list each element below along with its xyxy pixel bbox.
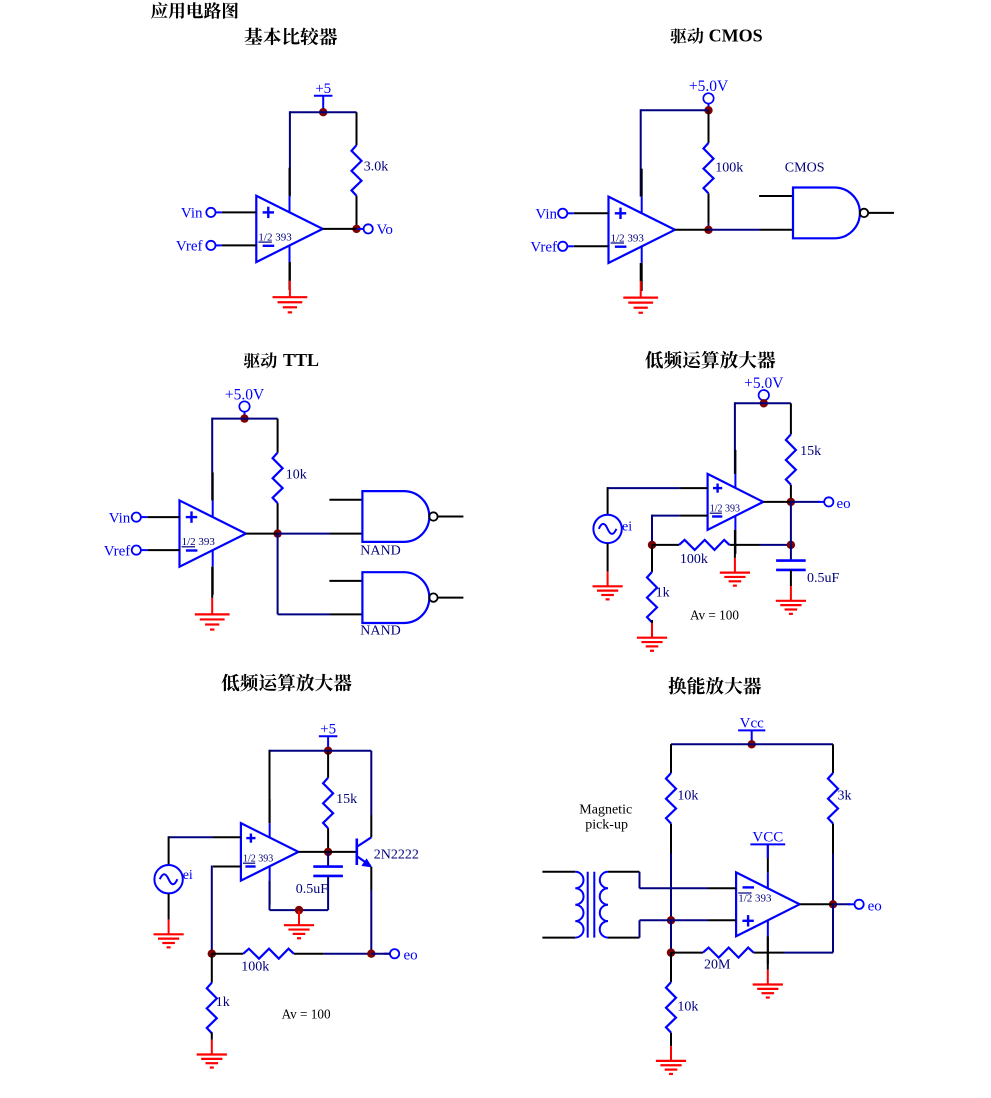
wire C6 sec top drop bbox=[639, 872, 641, 889]
wire C5 top rail bbox=[270, 750, 372, 752]
svg-text:+5: +5 bbox=[315, 81, 331, 97]
title 驱动 (TTL) bbox=[244, 352, 277, 368]
svg-text:20M: 20M bbox=[704, 957, 731, 972]
junction C4 fb node bbox=[648, 541, 656, 549]
ground C5 source GND bbox=[154, 894, 184, 948]
junction C5 fb node bbox=[208, 950, 216, 958]
resistor 3.0k bbox=[352, 112, 389, 229]
svg-text:Vin: Vin bbox=[181, 206, 203, 222]
svg-text:100k: 100k bbox=[680, 552, 708, 567]
svg-text:Vo: Vo bbox=[377, 222, 393, 238]
power port +5 (C5) bbox=[319, 721, 338, 750]
pin C4 + input pin bbox=[680, 487, 708, 489]
junction C5 out node bbox=[367, 950, 375, 958]
ground C4 1k GND bbox=[637, 620, 667, 651]
junction C1 power bbox=[319, 108, 327, 116]
ground C6 op-amp GND bbox=[753, 936, 783, 997]
NAND gate CMOS gate bbox=[793, 188, 894, 239]
svg-text:eo: eo bbox=[404, 948, 418, 964]
junction C1 output node bbox=[352, 225, 360, 233]
svg-text:3k: 3k bbox=[838, 789, 852, 804]
wire C3 left vertical bbox=[211, 418, 213, 501]
resistor 10k bbox=[666, 744, 698, 886]
pin C3 Vref wire bbox=[147, 549, 179, 551]
wire C1 top rail bbox=[290, 111, 357, 113]
wire C2 output to gate bbox=[709, 229, 761, 231]
svg-text:10k: 10k bbox=[286, 467, 307, 482]
pin C5 source riser bbox=[168, 836, 170, 865]
wire C5 collector up bbox=[370, 751, 372, 815]
power port +5.0V (C2) bbox=[689, 78, 729, 110]
junction C6 fb node bbox=[667, 948, 675, 956]
svg-text:Av = 100: Av = 100 bbox=[690, 607, 739, 622]
resistor 20M bbox=[671, 948, 833, 973]
pin C6 output pin bbox=[800, 903, 833, 905]
svg-text:eo: eo bbox=[868, 898, 882, 914]
wire C6 left rail down bbox=[670, 744, 672, 747]
wire C5 base pin bbox=[328, 851, 356, 853]
ground C5 1k GND bbox=[197, 1033, 227, 1068]
svg-text:100k: 100k bbox=[715, 161, 743, 176]
op-amp U3 1/2 393 (C3) bbox=[180, 472, 246, 594]
pin C2 NAND floating input bbox=[759, 195, 793, 197]
wire C5 - input wire bbox=[213, 866, 241, 868]
pin C5 output pin bbox=[298, 851, 328, 853]
pin C3 Vin wire bbox=[147, 516, 179, 518]
transistor Q1 2N2222 bbox=[357, 815, 419, 890]
ground C1 GND bbox=[273, 262, 308, 312]
svg-text:1k: 1k bbox=[656, 585, 670, 600]
svg-text:+5.0V: +5.0V bbox=[744, 375, 784, 392]
wire C5 left vertical bbox=[269, 750, 271, 823]
pin C2 Vin wire bbox=[574, 212, 609, 214]
svg-text:Vcc: Vcc bbox=[740, 716, 764, 732]
svg-text:NAND: NAND bbox=[360, 624, 400, 639]
title 低频运算放大器 (C4) bbox=[645, 351, 775, 369]
op-amp U4 1/2 393 (C4) bbox=[708, 450, 764, 554]
svg-text:0.5uF: 0.5uF bbox=[807, 571, 840, 586]
pin C4 output pin bbox=[763, 501, 791, 503]
terminal eo bbox=[818, 496, 851, 512]
pin C1 Vref wire bbox=[222, 244, 256, 246]
pin C2 NAND input pin bbox=[760, 229, 793, 231]
capacitor 0.5uF bbox=[296, 867, 343, 897]
wire C6 top rail bbox=[671, 743, 833, 745]
terminal eo bbox=[848, 898, 882, 914]
power port +5.0V (C4) bbox=[744, 375, 784, 403]
ground C4 cap GND bbox=[776, 570, 806, 614]
junction C4 output node bbox=[787, 498, 795, 506]
terminal Vref bbox=[530, 240, 573, 256]
junction C5 bottom gnd node bbox=[295, 906, 303, 914]
wire C4 - input wire bbox=[652, 515, 680, 517]
power port +5 bbox=[314, 81, 333, 112]
power port Vcc bbox=[738, 716, 765, 745]
svg-text:10k: 10k bbox=[677, 789, 698, 804]
wire C5 cap stub bbox=[327, 852, 329, 867]
terminal Vref bbox=[176, 239, 222, 255]
junction C6 + input node bbox=[667, 916, 675, 924]
svg-text:ei: ei bbox=[183, 868, 193, 883]
junction C3 output node bbox=[273, 529, 281, 537]
transformer T1 magnetic pick-up bbox=[542, 872, 639, 938]
svg-text:3.0k: 3.0k bbox=[364, 159, 389, 174]
junction C2 output node bbox=[704, 226, 712, 234]
junction C6 power node bbox=[748, 740, 756, 748]
svg-text:1k: 1k bbox=[216, 995, 230, 1010]
ground C4 op-amp GND bbox=[720, 530, 750, 586]
ground C2 GND bbox=[623, 263, 658, 313]
wire C5 - riser bbox=[211, 866, 213, 954]
wire C5 out to eo bbox=[371, 953, 390, 955]
junction C4 out-fb node bbox=[787, 541, 795, 549]
svg-text:+5: +5 bbox=[320, 721, 336, 737]
wire C3 branch down bbox=[277, 534, 279, 615]
resistor 15k bbox=[786, 403, 821, 502]
op-amp U2 1/2 393 (C2) bbox=[609, 169, 675, 291]
resistor 1k bbox=[207, 954, 230, 1033]
terminal Vin bbox=[181, 206, 222, 222]
pin C3 NAND2 floating input bbox=[329, 580, 362, 582]
wire C4 left vertical bbox=[734, 402, 736, 474]
pin C2 output pin bbox=[675, 229, 709, 231]
resistor 10k bbox=[666, 953, 698, 1046]
svg-text:+5.0V: +5.0V bbox=[689, 78, 729, 95]
ground C4 source GND bbox=[593, 543, 623, 599]
wire C1 left vertical bbox=[289, 111, 291, 196]
wire C6 out to eo bbox=[833, 903, 850, 905]
svg-text:Vref: Vref bbox=[176, 239, 203, 255]
NAND gate NAND bbox=[360, 491, 463, 558]
svg-text:2N2222: 2N2222 bbox=[374, 848, 419, 863]
svg-text:Magnetic: Magnetic bbox=[579, 802, 632, 817]
wire C4 fb vertical bbox=[790, 502, 792, 545]
junction C2 power node bbox=[704, 106, 712, 114]
svg-text:Vref: Vref bbox=[104, 543, 131, 559]
pin C1 output bbox=[323, 228, 357, 230]
junction C5 power node bbox=[324, 747, 332, 755]
title 换能放大器 bbox=[668, 677, 761, 695]
capacitor 0.5uF bbox=[776, 561, 839, 586]
resistor 3k bbox=[828, 744, 852, 904]
wire C5 emitter down bbox=[370, 890, 372, 954]
resistor 1k bbox=[647, 545, 670, 633]
svg-text:eo: eo bbox=[837, 496, 851, 512]
op-amp U1 1/2 393 (C1) bbox=[256, 168, 322, 290]
wire C6 fb vertical bbox=[832, 904, 834, 952]
wire C5 V- down bbox=[269, 881, 271, 910]
svg-text:Vin: Vin bbox=[535, 207, 557, 223]
wire C6 sec bottom rise bbox=[639, 920, 641, 937]
op-amp U5 1/2 393 (C5) bbox=[241, 799, 299, 905]
resistor 15k bbox=[323, 751, 357, 852]
svg-text:0.5uF: 0.5uF bbox=[296, 882, 329, 897]
wire C6 + input wire bbox=[640, 919, 709, 921]
pin C5 + input pin bbox=[213, 836, 241, 838]
wire C4 top rail bbox=[735, 402, 791, 404]
wire C5 cap to bottom bbox=[327, 876, 329, 910]
wire C3 output to NAND1 bbox=[278, 533, 330, 535]
ground C3 GND bbox=[195, 567, 230, 630]
pin C3 NAND1 input pin bbox=[330, 533, 362, 535]
pin C2 Vref wire bbox=[574, 245, 609, 247]
svg-text:Av = 100: Av = 100 bbox=[282, 1006, 331, 1021]
resistor 10k bbox=[273, 419, 307, 533]
resistor 100k bbox=[704, 110, 744, 230]
terminal Vin bbox=[109, 510, 148, 526]
pin C4 - input pin bbox=[680, 515, 708, 517]
svg-text:NAND: NAND bbox=[360, 544, 400, 559]
wire C4 - riser bbox=[651, 515, 653, 545]
junction C5 output node bbox=[324, 848, 332, 856]
svg-text:+5.0V: +5.0V bbox=[225, 386, 265, 403]
pin C3 output pin bbox=[246, 533, 278, 535]
svg-text:Vref: Vref bbox=[530, 240, 557, 256]
sine source ei bbox=[154, 865, 193, 893]
power port VCC bbox=[750, 830, 785, 858]
wire C6 left mid bbox=[670, 887, 672, 921]
title 驱动 (CMOS) bbox=[670, 28, 703, 44]
junction C4 power node bbox=[760, 399, 768, 407]
svg-text:VCC: VCC bbox=[752, 830, 783, 846]
op-amp U6 1/2 393 (C6) bbox=[736, 844, 800, 964]
terminal eo bbox=[384, 948, 418, 964]
wire C4 + input wire bbox=[608, 487, 680, 489]
wire C5 bottom wire bbox=[270, 909, 329, 911]
wire C4 cap stub bbox=[790, 545, 792, 561]
wire C2 left vertical bbox=[640, 109, 642, 196]
wire C5 + input wire bbox=[169, 836, 213, 838]
svg-text:ei: ei bbox=[622, 520, 632, 535]
resistor 100k bbox=[652, 540, 791, 567]
wire C2 top rail bbox=[641, 109, 709, 111]
wire C6 - input wire bbox=[640, 887, 709, 889]
wire C4 out to eo bbox=[791, 501, 820, 503]
svg-text:TTL: TTL bbox=[283, 350, 319, 370]
svg-text:15k: 15k bbox=[800, 444, 821, 459]
svg-text:CMOS: CMOS bbox=[709, 26, 763, 46]
pin C1 Vin wire bbox=[222, 211, 256, 213]
svg-text:CMOS: CMOS bbox=[785, 161, 825, 176]
svg-text:1/2 393: 1/2 393 bbox=[738, 893, 772, 905]
svg-text:Vin: Vin bbox=[109, 510, 131, 526]
page title 应用电路图 bbox=[151, 2, 238, 19]
title 低频运算放大器 (C5) bbox=[221, 674, 351, 692]
resistor 100k bbox=[212, 949, 371, 975]
terminal Vref bbox=[104, 543, 148, 559]
sine source ei bbox=[593, 515, 632, 543]
svg-text:100k: 100k bbox=[241, 960, 269, 975]
ground C5 mid GND bbox=[284, 910, 314, 938]
title 基本比较器 bbox=[245, 28, 338, 46]
junction C6 output node bbox=[829, 900, 837, 908]
pin C6 + input pin bbox=[708, 919, 736, 921]
junction C3 power node bbox=[240, 414, 248, 422]
wire C3 top rail bbox=[212, 418, 277, 420]
pin C3 NAND2 input pin bbox=[330, 613, 362, 615]
pin C6 - input pin bbox=[708, 887, 736, 889]
svg-text:15k: 15k bbox=[336, 792, 357, 807]
pin C5 - input pin bbox=[213, 866, 241, 868]
svg-text:10k: 10k bbox=[677, 999, 698, 1014]
svg-text:pick-up: pick-up bbox=[585, 817, 628, 832]
ground C6 bottom GND bbox=[656, 1046, 686, 1074]
NAND gate NAND bbox=[360, 572, 463, 638]
pin C3 NAND1 floating input bbox=[329, 499, 362, 501]
power port +5.0V (C3) bbox=[225, 386, 265, 418]
pin C5 V+ wire bbox=[269, 751, 271, 823]
terminal Vo bbox=[357, 222, 393, 238]
terminal Vin bbox=[535, 207, 573, 223]
wire C3 branch to NAND2 bbox=[278, 613, 330, 615]
wire C6 left lower bbox=[670, 920, 672, 952]
pin C4 source riser bbox=[607, 487, 609, 515]
